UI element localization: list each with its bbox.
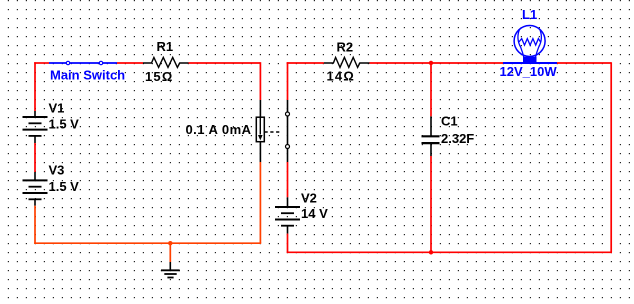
battery V3 — [23, 172, 48, 206]
relay contact K1 (closed, black) — [286, 100, 290, 162]
wire: left loop top, node TL to switch — [34, 62, 49, 64]
svg-text:1.5 V: 1.5 V — [49, 179, 80, 194]
wire: contact to V2 (red) — [287, 162, 289, 197]
dashed link: coil to contact — [265, 131, 282, 133]
wire: switch to R1 — [117, 62, 143, 64]
ground — [161, 262, 180, 278]
wire: fuse top lead (black) — [259, 100, 261, 117]
battery V2 — [275, 197, 300, 233]
wire: left loop left vertical top (red) — [34, 62, 36, 111]
svg-text:R2: R2 — [337, 40, 354, 55]
svg-text:12V_10W: 12V_10W — [500, 64, 558, 79]
junction: ground node dot — [168, 241, 172, 245]
wire: R1 to node TR of left loop — [189, 62, 261, 64]
wire: C1 top lead (red) — [430, 63, 432, 116]
svg-text:1.5 V: 1.5 V — [49, 117, 80, 132]
svg-text:2.32F: 2.32F — [441, 131, 474, 146]
svg-text:V1: V1 — [49, 101, 65, 116]
fuse/relay coil U1 (0.1 A) — [256, 117, 264, 142]
resistor R1 — [143, 57, 189, 67]
battery V1 — [23, 111, 48, 143]
svg-text:Main Switch: Main Switch — [50, 68, 125, 83]
svg-text:L1: L1 — [522, 7, 537, 22]
wire: right loop top, left segment (red) — [287, 62, 324, 64]
junction: C1 bottom node dot — [429, 250, 433, 254]
svg-text:0.1 A 0mA: 0.1 A 0mA — [186, 122, 252, 137]
wire: lamp to top-right corner (red) — [557, 62, 611, 64]
wire: ground stem (orange) — [169, 243, 171, 262]
wire: left loop bottom (orange net) — [34, 242, 261, 244]
junction: C1 top node dot — [429, 61, 433, 65]
svg-text:15Ω: 15Ω — [145, 69, 173, 84]
wire: between V1 and V3 (red) — [34, 143, 36, 172]
svg-text:V3: V3 — [49, 163, 65, 178]
svg-text:14Ω: 14Ω — [327, 69, 355, 84]
wire: right loop top-left corner down (red) — [287, 62, 289, 100]
svg-text:V2: V2 — [301, 191, 317, 206]
switch S1 Main Switch (closed, blue) — [49, 61, 117, 64]
wire: R2 to lamp (red) — [370, 62, 504, 64]
lamp L1 (blue) — [503, 26, 557, 64]
wire: fuse bottom lead (black) — [259, 142, 261, 162]
capacitor C1 — [422, 116, 440, 156]
wire: C1 bottom lead to bottom wire (red) — [430, 156, 432, 252]
svg-text:14 V: 14 V — [301, 206, 328, 221]
wire: V3 to bottom-left corner (orange net) — [34, 206, 36, 244]
wire: V2 to bottom-left corner of right loop (red) — [287, 234, 289, 253]
svg-text:C1: C1 — [441, 114, 458, 129]
wire: left loop middle vertical lower (orange net) — [259, 162, 261, 243]
wire: left loop middle vertical upper (red) — [259, 62, 261, 100]
svg-text:R1: R1 — [157, 39, 174, 54]
wire: right loop bottom (red) — [287, 251, 612, 253]
resistor R2 — [324, 57, 370, 67]
wire: right loop right vertical (red) — [610, 62, 612, 252]
